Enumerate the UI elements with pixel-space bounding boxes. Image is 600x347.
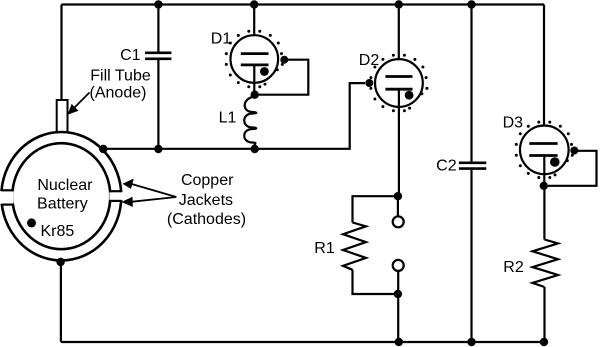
arrow to upper copper jacket (123, 179, 177, 197)
wire left vertical from top bus to fill tube (60, 5, 62, 101)
capacitor C1 (145, 53, 171, 59)
svg-text:R2: R2 (503, 259, 524, 276)
wire R1 top rail (353, 196, 398, 222)
resistor R2 (533, 240, 559, 288)
wire D3 cathode lead down (543, 156, 545, 186)
node R1 bottom junction (394, 290, 402, 298)
right notch gap in outer ring (109, 192, 123, 200)
svg-text:D2: D2 (359, 52, 380, 69)
inductor L1 (244, 97, 256, 149)
tube diode D3 (515, 121, 579, 179)
node D1/L1 junction (251, 91, 259, 99)
wire D2 cathode lead down to R1 node (398, 89, 400, 196)
node middle bus C1 (154, 145, 162, 153)
node battery bottom (56, 258, 64, 266)
wire R1 node to bottom bus (397, 294, 399, 342)
arrow to lower copper jacket (122, 197, 177, 207)
wire C2 lower lead (470, 170, 472, 342)
wire C1 lower lead (157, 60, 159, 149)
wire D1 cathode lead down (253, 65, 255, 95)
capacitor C2 (459, 163, 486, 169)
wire bottom bus (61, 341, 544, 343)
wire R1 bottom rail (353, 270, 398, 294)
wire D1 edge dot loop to node below (258, 60, 308, 95)
svg-text:Battery: Battery (37, 195, 88, 212)
svg-text:L1: L1 (219, 110, 237, 127)
node top bus D2 (395, 0, 403, 8)
node bottom bus C2 (467, 338, 475, 346)
output terminal upper circle (393, 216, 404, 227)
svg-text:Nuclear: Nuclear (37, 177, 93, 194)
wire C1 upper lead (157, 5, 159, 52)
arrow from (Anode) to fill tube (68, 93, 90, 115)
svg-text:(Cathodes): (Cathodes) (167, 211, 246, 228)
svg-text:R1: R1 (314, 240, 335, 257)
node top bus D1 (250, 0, 258, 8)
svg-text:Fill Tube: Fill Tube (90, 67, 151, 84)
wire terminal stub upper (397, 196, 399, 216)
wire right vertical from top bus to D3 (543, 5, 545, 145)
fill tube (anode) (57, 100, 68, 133)
svg-text:C2: C2 (436, 157, 457, 174)
tube diode D1 (225, 30, 288, 88)
wire terminal stub lower (397, 271, 399, 294)
svg-text:Jackets: Jackets (179, 192, 233, 209)
svg-text:D1: D1 (211, 30, 232, 47)
wire D2 anode lead (398, 5, 400, 78)
svg-text:C1: C1 (120, 47, 141, 64)
tube diode D2 (365, 54, 428, 112)
node top bus C1 (154, 0, 162, 8)
left notch gap in outer ring (0, 191, 14, 204)
svg-text:(Anode): (Anode) (90, 84, 147, 101)
node R1 top junction (394, 192, 402, 200)
wire R2 lower lead (543, 287, 545, 342)
node battery top-right to bus (99, 145, 107, 153)
wire D3 edge dot loop to node below (548, 151, 597, 186)
wire middle bus from battery to D2 branch (103, 83, 365, 149)
wire top bus (62, 3, 545, 5)
node middle bus L1 (251, 145, 259, 153)
node bottom bus D2 column (395, 338, 403, 346)
wire battery bottom to bottom bus (60, 262, 62, 342)
svg-text:Kr85: Kr85 (41, 223, 75, 240)
wire D1 anode lead (253, 5, 255, 54)
node bottom bus D3 column (540, 338, 548, 346)
node top bus C2 (467, 0, 475, 8)
resistor R1 (343, 223, 366, 270)
nuclear battery outer copper jacket ring (0, 132, 123, 260)
svg-text:D3: D3 (503, 115, 524, 132)
node D3/R2 junction (540, 182, 548, 190)
svg-text:Copper: Copper (181, 172, 234, 189)
wire C2 upper lead (470, 5, 472, 162)
output terminal lower circle (393, 260, 404, 271)
wire R2 upper lead (543, 186, 545, 240)
Kr85 dot (27, 218, 36, 227)
